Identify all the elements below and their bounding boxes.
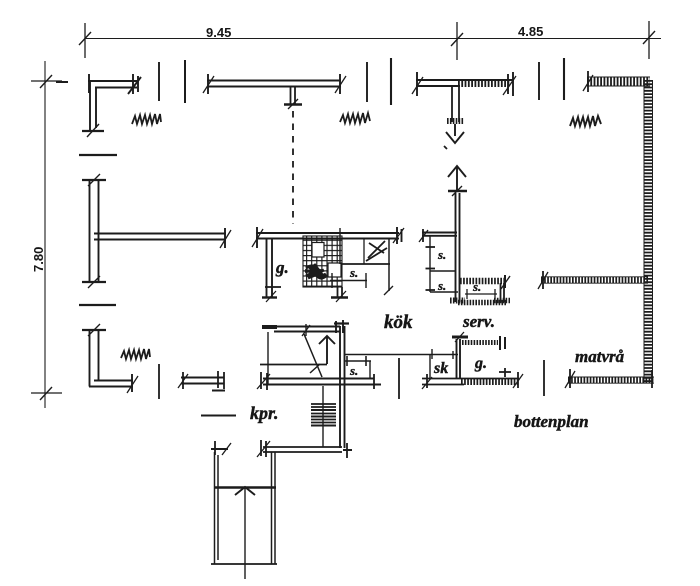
window sill left lower <box>79 304 116 306</box>
svg-text:g.: g. <box>474 355 487 372</box>
stair landing line <box>260 364 327 366</box>
tick top-right <box>643 21 655 59</box>
rum label top-right <box>570 116 601 126</box>
bottom wall of sk/g block <box>422 372 523 389</box>
serv upper wall stub <box>447 86 464 122</box>
window jamb <box>366 62 368 102</box>
niche right of stairs <box>345 356 371 378</box>
porch left wall <box>215 452 219 564</box>
wall left of g-room <box>262 239 281 303</box>
rum label top-left <box>132 114 161 124</box>
kitchen small dim line <box>330 273 367 288</box>
stove X mark <box>366 241 387 261</box>
window sill left upper <box>79 154 117 156</box>
kitchen counter line <box>342 263 390 265</box>
serv right wall <box>494 283 510 302</box>
porch bottom line <box>211 563 277 565</box>
stair up arrow <box>319 336 335 364</box>
svg-text:s.: s. <box>472 279 481 294</box>
svg-text:kpr.: kpr. <box>250 403 279 423</box>
kitchen counter left edge <box>363 239 365 265</box>
wall top-left corner <box>82 74 141 137</box>
svg-text:s.: s. <box>349 265 358 280</box>
wall piece left of kpr <box>178 371 225 391</box>
wall stub at T-junction <box>284 86 302 109</box>
stray dash left of corner <box>56 81 68 83</box>
stair treads <box>311 404 336 426</box>
sk box left edge <box>429 355 431 379</box>
rum label bottom-left <box>121 349 150 359</box>
wall top of g-room <box>252 227 404 248</box>
hatched wall right side <box>644 80 653 383</box>
dimension line top <box>85 38 661 40</box>
svg-text:4.85: 4.85 <box>518 24 543 39</box>
serv cupboard divider <box>430 270 456 272</box>
svg-text:9.45: 9.45 <box>206 25 231 40</box>
svg-text:s.: s. <box>437 247 446 262</box>
tick top-left <box>79 23 91 58</box>
tick left-top <box>31 75 62 88</box>
arrow down <box>446 124 464 143</box>
hatched part of top wall <box>458 79 510 87</box>
svg-text:s.: s. <box>349 363 358 378</box>
porch arrow <box>235 487 255 579</box>
stair diagonal cut <box>304 334 322 377</box>
door jamb kpr-hall <box>398 358 400 399</box>
dashed wall line <box>292 111 294 224</box>
svg-text:sk: sk <box>433 360 448 377</box>
stair center rail <box>322 386 324 447</box>
window jamb <box>390 58 392 105</box>
porch right wall <box>272 452 276 564</box>
serv cupboard bottom <box>430 291 458 293</box>
arrow up <box>448 166 466 190</box>
svg-text:kök: kök <box>384 312 413 333</box>
window jamb <box>538 62 540 100</box>
matvra bottom hatched wall <box>565 369 654 388</box>
dimension line left <box>44 61 46 408</box>
porch step line <box>214 486 276 488</box>
kitchen right edge <box>388 239 390 292</box>
kitchen right edge tick <box>384 286 393 295</box>
lower wall stub top tick <box>452 332 468 342</box>
door jamb left room <box>158 364 160 399</box>
dash left of kpr <box>201 415 236 417</box>
wall left bottom corner <box>82 324 138 393</box>
hall line <box>344 349 458 359</box>
tick top-middle <box>451 22 463 60</box>
serv wall stub top tick <box>448 186 467 196</box>
lower serv wall <box>457 339 461 379</box>
svg-text:serv.: serv. <box>462 312 495 331</box>
porch left corner <box>211 441 231 455</box>
svg-text:g.: g. <box>275 258 289 277</box>
tick left-bottom <box>31 387 62 400</box>
window jamb <box>184 60 186 103</box>
serv cupboard left edge <box>426 236 436 292</box>
wall stub below chimney <box>331 287 348 302</box>
serv cupboard top wall <box>419 229 457 242</box>
serv niche dim line <box>465 289 497 299</box>
window jamb <box>158 62 160 101</box>
interior wall left <box>94 228 231 248</box>
stair block bottom wall <box>257 372 381 390</box>
kpr south wall <box>257 440 352 458</box>
window jamb <box>563 58 565 100</box>
small dot <box>444 146 447 149</box>
wall top-right of serv <box>412 72 516 96</box>
svg-text:s.: s. <box>437 278 446 293</box>
svg-text:matvrå: matvrå <box>575 347 625 366</box>
chimney right edge line <box>339 228 341 264</box>
hatched wall top-far-right <box>583 71 650 92</box>
serv bottom hatched wall <box>458 300 506 306</box>
svg-text:7.80: 7.80 <box>31 247 46 272</box>
svg-text:bottenplan: bottenplan <box>514 412 589 431</box>
wall top-middle <box>203 74 346 94</box>
serv vertical wall <box>450 193 465 302</box>
rum label top-middle <box>340 113 370 123</box>
wall left middle <box>82 174 106 288</box>
small cross mark <box>499 368 511 377</box>
serv hatched bench <box>460 275 510 289</box>
interior hatched wall right <box>538 271 648 289</box>
stair block top wall <box>262 320 349 336</box>
door jamb matvra <box>543 360 545 396</box>
hatched shelf <box>462 336 505 350</box>
chimney scribble <box>305 264 326 278</box>
stair block left edge <box>267 332 269 384</box>
chimney hatched block <box>303 236 342 287</box>
stair block right wall <box>340 326 345 448</box>
